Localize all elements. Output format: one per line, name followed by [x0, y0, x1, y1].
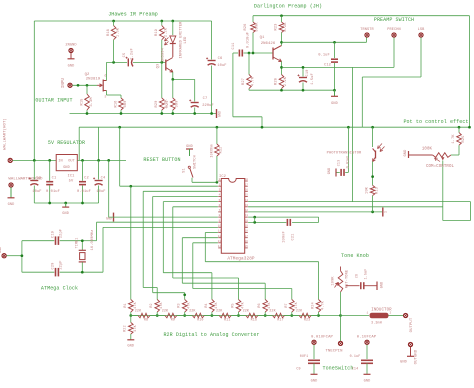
svg-text:26: 26	[245, 189, 249, 192]
pin GND of IR preamp rail	[217, 109, 222, 118]
svg-text:22pF: 22pF	[60, 229, 64, 238]
capacitor C9 0.01uF	[296, 345, 320, 374]
svg-text:OUTGND: OUTGND	[415, 349, 419, 364]
section title JHawes IR Preamp	[108, 12, 158, 18]
svg-text:0.1UFCAP: 0.1UFCAP	[357, 336, 377, 340]
svg-text:R9: R9	[171, 319, 175, 323]
svg-text:GND: GND	[63, 166, 70, 170]
svg-text:GND: GND	[400, 361, 408, 365]
wire input net to JFET gate	[72, 84, 97, 86]
svg-text:C20: C20	[52, 263, 56, 270]
wire GND pin to chip pin8	[109, 216, 218, 218]
svg-text:16: 16	[245, 240, 249, 243]
wire wallwart input rail	[13, 159, 57, 161]
svg-text:GND: GND	[0, 247, 2, 253]
svg-text:R22: R22	[124, 325, 128, 331]
svg-text:R7: R7	[285, 303, 289, 307]
svg-text:R12: R12	[220, 147, 224, 154]
node junction emitter to PRECHN	[280, 66, 283, 69]
wire switch to chip reset pin	[192, 178, 218, 183]
node junction R15 top	[86, 84, 89, 87]
node junction C2	[81, 159, 84, 162]
section title Tone Knob	[341, 253, 369, 259]
wire phototransistor branch from 5V rail	[372, 127, 374, 147]
node junction R18 bottom / drain	[112, 61, 115, 64]
svg-text:24: 24	[245, 199, 249, 202]
resistor R22 47K to ground	[124, 316, 138, 340]
svg-text:R5: R5	[232, 303, 236, 307]
pad PRECHN	[387, 28, 401, 37]
node junction 5V rail at C11 drop	[261, 126, 264, 129]
voltage regulator IC1 7805	[56, 155, 77, 184]
node junction R1 feed on pin2 wire	[129, 185, 132, 188]
wire regulator ground rail	[34, 202, 98, 204]
svg-text:LSB: LSB	[418, 28, 426, 32]
wire R2R summing rail	[131, 315, 341, 317]
svg-text:11: 11	[218, 230, 222, 233]
wire chip pin to control pot wiper net	[248, 161, 470, 221]
svg-text:ATMega328P: ATMega328P	[227, 257, 255, 262]
wire darlington 9V rail	[253, 16, 470, 128]
svg-text:Q3: Q3	[157, 64, 161, 69]
svg-text:2N3904: 2N3904	[162, 47, 166, 62]
svg-text:R27: R27	[242, 78, 246, 85]
capacitor C4 10uF	[93, 160, 106, 203]
capacitor C12 0.1uF	[318, 42, 338, 90]
svg-text:R16: R16	[115, 101, 119, 108]
svg-text:OUTPUT: OUTPUT	[410, 317, 414, 332]
node junction input wire	[77, 84, 80, 87]
resistor R24 4.7K vertical	[312, 300, 326, 316]
svg-text:0.01UFCAP: 0.01UFCAP	[311, 336, 333, 340]
node junction R19 bottom / base	[160, 61, 163, 64]
wire darlington ground rail	[249, 89, 335, 91]
svg-text:22K: 22K	[162, 310, 169, 314]
node junction 5V rail at R25	[458, 126, 461, 129]
svg-text:47K: 47K	[295, 301, 299, 308]
wire clock ground stem	[7, 241, 22, 273]
capacitor C7 220uF output	[189, 79, 214, 113]
node junction 5V rail at C13	[347, 126, 350, 129]
svg-text:3.3mH: 3.3mH	[371, 322, 382, 326]
svg-text:C19: C19	[52, 231, 56, 238]
svg-text:3: 3	[219, 189, 221, 192]
ground symbol regulator	[62, 203, 69, 216]
svg-text:14: 14	[218, 245, 222, 248]
svg-text:C21: C21	[292, 233, 296, 241]
svg-text:GND: GND	[68, 65, 75, 69]
svg-text:C7: C7	[203, 97, 208, 101]
pad 0.1UFCAP	[357, 336, 377, 345]
svg-text:21: 21	[245, 214, 249, 217]
capacitor C1 0.01uF	[46, 160, 60, 203]
svg-text:GND: GND	[328, 168, 332, 174]
svg-text:2NGND: 2NGND	[65, 44, 76, 48]
node junction R23 top on rail	[280, 14, 283, 17]
svg-text:20: 20	[245, 219, 249, 222]
wire net DAC bit to R1	[130, 186, 132, 299]
svg-text:s: s	[104, 96, 106, 100]
pad INPU guitar input	[62, 77, 72, 88]
wire aux 5V branch to GND pin	[108, 160, 110, 217]
resistor R26 560K	[244, 16, 260, 53]
pad 0.01UFCAP	[311, 336, 333, 345]
svg-text:Q1: Q1	[260, 36, 265, 40]
svg-text:47K: 47K	[268, 301, 272, 308]
crystal Q5 16.000MHz	[76, 230, 96, 273]
svg-text:22K: 22K	[216, 310, 223, 314]
resistor R21 390	[166, 79, 180, 113]
node junction R18 top	[112, 20, 115, 23]
resistor R25 1.7K	[452, 127, 466, 146]
resistor R19 2.2K	[155, 21, 169, 62]
svg-text:WALLWART(HOT): WALLWART(HOT)	[3, 118, 8, 150]
node junction aux vertical	[107, 159, 110, 162]
IC2 right pin stubs and pin numbers	[245, 178, 249, 248]
svg-text:IC1: IC1	[68, 175, 76, 179]
svg-text:R3: R3	[178, 303, 182, 307]
svg-text:C5: C5	[123, 53, 127, 58]
svg-text:2: 2	[390, 312, 392, 315]
wire tone node to TNECPIN	[340, 316, 342, 342]
svg-text:6: 6	[219, 204, 221, 207]
svg-text:680: 680	[124, 101, 128, 108]
svg-text:1.5K: 1.5K	[117, 27, 121, 37]
svg-text:4.7M: 4.7M	[252, 77, 256, 86]
svg-text:10K: 10K	[366, 186, 370, 194]
wire JFET source to R16	[107, 91, 122, 99]
pad OUTPUT	[404, 313, 415, 332]
wire base node to Q1	[248, 52, 273, 54]
svg-text:9: 9	[219, 219, 221, 222]
svg-text:Pot to control effect: Pot to control effect	[403, 119, 468, 125]
svg-text:R2: R2	[150, 303, 154, 307]
node junction R3 feed	[183, 293, 186, 296]
ground symbol C9	[311, 374, 318, 383]
svg-text:15: 15	[245, 245, 249, 248]
svg-text:1.7K: 1.7K	[452, 134, 456, 144]
svg-text:2.2uF: 2.2uF	[131, 48, 135, 60]
node junction collector	[280, 41, 283, 44]
wire chip pin AREF net	[248, 216, 319, 218]
svg-text:22K: 22K	[189, 310, 196, 314]
capacitor C5 2.2uF coupling	[123, 48, 135, 66]
ground symbol wallwart ground	[8, 187, 15, 207]
wire 5V feed up to rail	[98, 127, 100, 160]
svg-text:1: 1	[384, 211, 388, 213]
resistor R4 47K vertical	[205, 300, 219, 316]
svg-text:GND: GND	[381, 282, 385, 288]
svg-text:0.01uF: 0.01uF	[46, 190, 60, 194]
svg-text:22K: 22K	[296, 310, 303, 314]
IC2 left pin stubs and pin numbers	[218, 178, 222, 248]
svg-text:R18: R18	[107, 29, 111, 36]
node junction LED top	[171, 20, 174, 23]
wire Q3 emitter node	[173, 72, 195, 79]
svg-text:R15: R15	[81, 99, 85, 106]
svg-text:C4: C4	[101, 177, 106, 181]
svg-text:RESET BUTTON: RESET BUTTON	[143, 157, 180, 163]
pad WALLWART(HOT)	[3, 118, 13, 162]
node junction 5V rail to chip VCC drop	[118, 126, 121, 129]
node junction C1	[48, 159, 51, 162]
wire regulator output rail	[77, 159, 126, 161]
capacitor C11 input cap	[232, 42, 248, 57]
capacitor C2 0.01uF	[77, 160, 91, 203]
svg-text:IN: IN	[58, 160, 62, 164]
svg-text:TRNSTR: TRNSTR	[360, 28, 374, 32]
section title Darlington Preamp (JH)	[254, 4, 322, 10]
wire 5V rail across schematic	[79, 127, 469, 160]
svg-text:R1: R1	[124, 303, 128, 307]
svg-text:C9: C9	[296, 368, 300, 372]
resistor R12 10KOhm pullup	[209, 127, 223, 182]
node junction emitter/R21	[171, 78, 174, 81]
svg-text:C14: C14	[352, 368, 358, 372]
svg-text:INPU: INPU	[62, 77, 66, 88]
resistor R18 1.5K	[107, 21, 121, 62]
ground symbol darlington	[331, 90, 338, 106]
svg-text:TIME1: TIME1	[76, 238, 80, 249]
resistor R2 47K vertical	[150, 300, 164, 316]
svg-text:R6: R6	[258, 303, 262, 307]
svg-text:0UF1: 0UF1	[300, 355, 309, 359]
node junction pin8 wire	[253, 216, 256, 219]
pad 2NGND	[65, 44, 76, 59]
svg-text:GND: GND	[311, 380, 318, 384]
resistor R15 3.3M	[81, 85, 95, 113]
capacitor C10 1.5uF	[298, 67, 316, 90]
wire net DAC bit pin4 to R3	[153, 197, 218, 300]
svg-text:INFRARED EMITTER: INFRARED EMITTER	[180, 21, 184, 59]
svg-text:3.3M: 3.3M	[90, 97, 94, 106]
svg-text:16.000MHz: 16.000MHz	[91, 230, 95, 251]
svg-text:220uF: 220uF	[202, 104, 214, 108]
svg-text:LED: LED	[184, 36, 188, 44]
pad LSB	[418, 28, 426, 37]
svg-text:22: 22	[245, 209, 249, 212]
svg-text:22K: 22K	[135, 310, 142, 314]
ground symbol R22	[127, 340, 134, 349]
switch S1 reset	[183, 155, 198, 177]
wire Q1 collector to TRNSTR net	[281, 42, 283, 45]
svg-text:R24: R24	[312, 302, 316, 308]
svg-text:C6: C6	[218, 57, 223, 61]
section title R2R Digital to Analog Converter	[163, 332, 259, 338]
svg-text:47K: 47K	[215, 301, 219, 308]
wire Q1 emitter node	[281, 62, 283, 75]
wire short vertical between AREF and C21 nets	[254, 217, 256, 222]
svg-text:47K: 47K	[160, 301, 164, 308]
wire net DAC bit pin6 to R5	[173, 207, 239, 300]
svg-text:2: 2	[219, 183, 221, 186]
wire 5V to chip pin2	[120, 127, 218, 186]
svg-text:R10: R10	[197, 319, 203, 323]
svg-text:22pF: 22pF	[60, 260, 64, 269]
svg-text:5: 5	[219, 199, 221, 202]
wire net DAC bit pin11 to R8 under chip	[205, 233, 318, 300]
svg-text:Darlington Preamp (JH): Darlington Preamp (JH)	[254, 4, 322, 10]
svg-text:R26: R26	[244, 24, 248, 31]
svg-text:0.1uF: 0.1uF	[350, 355, 361, 359]
section title Pot to control effect	[403, 119, 468, 125]
node junction 5V rail at phototransistor	[371, 126, 374, 129]
svg-text:1: 1	[367, 312, 369, 315]
svg-text:8.2K: 8.2K	[284, 22, 288, 32]
svg-text:C8: C8	[356, 274, 360, 278]
svg-text:0.01uF: 0.01uF	[347, 156, 351, 169]
svg-text:10KOhm: 10KOhm	[209, 144, 214, 157]
svg-text:R21: R21	[166, 100, 170, 108]
node junction crystal bottom	[81, 271, 84, 274]
wire chip pin through C21	[248, 217, 319, 222]
resistor R17 22K horizontal	[265, 310, 292, 323]
svg-text:GND: GND	[218, 111, 222, 117]
resistor R27 4.7M	[242, 53, 256, 90]
pad TRNSTR	[360, 28, 374, 37]
node junction 5V rail right corner	[468, 126, 471, 129]
resistor R7 47K vertical	[285, 300, 299, 316]
svg-text:47K: 47K	[134, 324, 138, 331]
resistor R8 22K horizontal	[131, 310, 157, 323]
svg-text:23: 23	[245, 204, 249, 207]
wire 9V top rail of IR preamp	[34, 21, 211, 160]
node junction clock ground	[21, 254, 24, 257]
svg-text:GND: GND	[404, 149, 408, 157]
svg-text:JHawes IR Preamp: JHawes IR Preamp	[108, 12, 158, 18]
svg-text:28: 28	[245, 178, 249, 181]
wire C5 to Q3 base	[133, 61, 166, 63]
capacitor C6 10uF filter	[206, 21, 227, 114]
wire TRNSTR net	[282, 38, 367, 43]
svg-text:R8: R8	[144, 319, 148, 323]
wire net DAC bit pin13 to R7	[193, 243, 292, 300]
svg-text:PRECHN: PRECHN	[387, 28, 401, 32]
svg-text:R28: R28	[275, 78, 279, 85]
svg-text:C10: C10	[306, 70, 310, 77]
ground pin of tone cap	[377, 282, 385, 291]
svg-text:19: 19	[245, 225, 249, 228]
resistor R23 22K horizontal	[292, 310, 319, 323]
svg-text:100K: 100K	[422, 148, 433, 152]
resistor R23 8.2K	[275, 16, 289, 43]
svg-text:22K: 22K	[269, 310, 276, 314]
node junctions on R2R rail	[129, 314, 341, 317]
section title 5V REGULATOR	[48, 140, 85, 146]
svg-text:R19: R19	[155, 29, 159, 36]
svg-text:22K: 22K	[243, 310, 250, 314]
node junctions on bottom rail	[86, 112, 213, 115]
svg-text:R17: R17	[277, 319, 283, 323]
pin end of R13 net	[383, 208, 388, 217]
pad OUTGND	[408, 342, 418, 364]
svg-text:1.5uF: 1.5uF	[311, 73, 315, 85]
svg-text:C1: C1	[52, 177, 57, 181]
svg-text:10uF: 10uF	[217, 64, 226, 68]
svg-text:12: 12	[218, 235, 222, 238]
svg-text:GND: GND	[331, 102, 338, 106]
svg-text:10uF: 10uF	[32, 190, 41, 194]
transistor Q3 2N3904 NPN	[157, 47, 173, 72]
svg-text:47K: 47K	[188, 301, 192, 308]
ground symbol OUTGND	[400, 347, 414, 365]
svg-text:4: 4	[219, 194, 221, 197]
svg-text:PHOTOTRANSISTOR: PHOTOTRANSISTOR	[327, 152, 362, 156]
wire LSB net	[362, 38, 421, 128]
svg-text:100nF: 100nF	[283, 231, 287, 243]
wire net DAC bit pin5 to R4	[163, 202, 218, 300]
svg-text:R25: R25	[462, 136, 466, 143]
capacitor C8 1.5uF tone	[346, 269, 377, 290]
capacitor C20 22pF	[22, 260, 82, 276]
potentiometer 100K COM=CONTROL	[409, 148, 455, 170]
resistor R16 680	[115, 98, 128, 114]
svg-text:GUITAR INPUT: GUITAR INPUT	[35, 98, 72, 104]
svg-text:R13: R13	[376, 187, 380, 194]
node junction R27 top	[248, 52, 251, 55]
svg-text:100K: 100K	[332, 276, 336, 286]
svg-text:PREAMP SWITCH: PREAMP SWITCH	[374, 17, 414, 23]
svg-text:R23: R23	[275, 24, 279, 31]
wire net DAC bit pin12 to R6	[182, 238, 265, 300]
resistor R16 22K horizontal	[239, 310, 266, 323]
pin GND near chip	[106, 213, 114, 222]
svg-text:47K: 47K	[134, 301, 138, 308]
op-amp U1 IC2 ATMega328P body	[219, 175, 255, 262]
pad WALLWARTGROUND	[8, 178, 43, 188]
wire XTAL2 net to chip pin10	[82, 227, 218, 272]
node junction photo emitter	[371, 175, 374, 178]
resistor R10 22K horizontal	[185, 310, 212, 323]
transistor Q1 2N6426 darlington	[260, 36, 282, 62]
svg-text:13: 13	[218, 240, 222, 243]
svg-text:GND: GND	[8, 203, 15, 207]
svg-text:R16: R16	[251, 319, 257, 323]
node junction R26 bottom	[252, 52, 255, 55]
svg-text:4.7K: 4.7K	[322, 300, 326, 309]
svg-text:C13: C13	[338, 160, 342, 166]
svg-text:SWITCH: SWITCH	[194, 155, 198, 169]
node junction C12 top	[333, 41, 336, 44]
wire C11 input drop	[233, 53, 262, 127]
svg-text:GND: GND	[127, 345, 134, 349]
svg-text:8: 8	[219, 214, 221, 217]
node junction crystal top	[81, 239, 84, 242]
ground pin of control pot	[404, 149, 409, 158]
wire IR preamp bottom rail	[70, 113, 217, 115]
svg-text:ATMega Clock: ATMega Clock	[41, 286, 78, 292]
svg-text:560K: 560K	[256, 22, 260, 32]
inductor L1 3.3mH	[341, 309, 404, 326]
resistor R9 22K horizontal	[157, 310, 185, 323]
wire net DAC bit pin3 to R2	[143, 191, 218, 299]
section title ATMega Clock	[41, 286, 78, 292]
section title ToneSwitch	[322, 366, 353, 372]
svg-text:0.01uF: 0.01uF	[77, 190, 91, 194]
svg-text:5V: 5V	[69, 180, 74, 184]
svg-text:ToneSwitch: ToneSwitch	[322, 366, 353, 372]
capacitor C14 0.1uF	[350, 345, 373, 374]
node junction C12 bottom	[333, 89, 336, 92]
svg-text:GND: GND	[364, 380, 371, 384]
svg-text:17: 17	[245, 235, 249, 238]
svg-text:Tone Knob: Tone Knob	[341, 253, 369, 259]
svg-text:R2R Digital to Analog Converte: R2R Digital to Analog Converter	[163, 332, 259, 338]
svg-text:C11: C11	[232, 42, 236, 50]
ground symbol C14	[364, 374, 371, 383]
svg-text:Q2: Q2	[85, 73, 90, 77]
svg-text:2N3819: 2N3819	[86, 78, 101, 82]
